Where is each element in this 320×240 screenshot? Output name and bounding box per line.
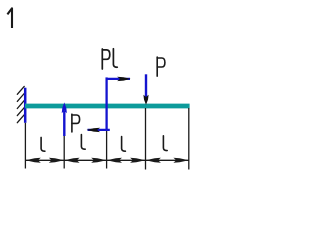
dimension double arrow segment 2	[64, 158, 106, 163]
extension line A (wall)	[24, 123, 26, 169]
wall hatching	[17, 86, 24, 122]
dimension label l (segment 1)	[41, 137, 45, 151]
dimension double arrow segment 4	[146, 158, 189, 163]
dimension label l (segment 3)	[122, 137, 126, 152]
down force arrow (P)	[143, 74, 148, 105]
extension line C (under moment)	[106, 131, 108, 169]
beam	[25, 104, 190, 109]
moment top arrow (points right)	[106, 77, 131, 81]
extension line B (under up force)	[63, 136, 65, 169]
dimension double arrow segment 1	[25, 158, 64, 163]
moment bottom arrow (points left)	[87, 128, 110, 132]
extension line E (beam end)	[188, 108, 190, 170]
label P (down force)	[157, 57, 165, 76]
up force arrow (P)	[62, 102, 67, 136]
label P (up force)	[72, 114, 80, 132]
extension line D (under down force)	[145, 108, 147, 170]
moment couple (Pl) vertical line	[105, 77, 107, 130]
label 1 (figure number)	[7, 8, 12, 28]
label Pl (moment)	[102, 49, 117, 69]
dimension label l (segment 2)	[81, 135, 85, 150]
fixed support wall line	[24, 88, 27, 123]
dimension label l (segment 4)	[163, 136, 167, 151]
dimension double arrow segment 3	[107, 158, 146, 163]
